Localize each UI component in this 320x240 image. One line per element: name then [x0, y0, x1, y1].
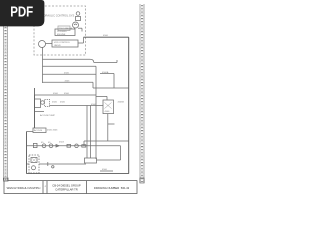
svg-text:4506: 4506 — [91, 104, 97, 106]
svg-text:HYDRAULIC CONTROL SYS: HYDRAULIC CONTROL SYS — [40, 14, 74, 18]
svg-text:4506: 4506 — [103, 35, 109, 37]
svg-text:4506: 4506 — [64, 73, 70, 75]
svg-text:WGM HYDRAULI MULTIPLI: WGM HYDRAULI MULTIPLI — [7, 186, 41, 190]
svg-text:CB-24 DIESEL GROUP: CB-24 DIESEL GROUP — [52, 183, 81, 187]
svg-text:4506: 4506 — [60, 102, 66, 104]
svg-text:J: J — [44, 186, 45, 188]
svg-text:VALVE: VALVE — [54, 44, 61, 47]
svg-text:ENGINE: ENGINE — [57, 34, 66, 36]
svg-text:PDF: PDF — [10, 5, 33, 21]
svg-text:4506: 4506 — [105, 111, 111, 113]
svg-text:4506: 4506 — [52, 102, 58, 104]
svg-text:4506 4506: 4506 4506 — [47, 130, 58, 132]
svg-text:ACCUM PUMP: ACCUM PUMP — [40, 114, 55, 117]
svg-text:4506B: 4506B — [118, 102, 125, 104]
svg-text:4506: 4506 — [53, 93, 59, 95]
svg-text:CATERPILLAR TR: CATERPILLAR TR — [55, 187, 78, 191]
svg-text:ACCUM: ACCUM — [34, 129, 42, 132]
svg-text:DRAWING NUMBER 500-43: DRAWING NUMBER 500-43 — [94, 186, 130, 190]
svg-text:4506: 4506 — [102, 169, 108, 171]
svg-text:4506: 4506 — [65, 80, 71, 82]
svg-text:150# GAUGE: 150# GAUGE — [59, 27, 73, 30]
svg-text:4503: 4503 — [59, 142, 65, 144]
svg-text:4506: 4506 — [64, 93, 70, 95]
svg-text:4506A: 4506A — [102, 71, 109, 74]
